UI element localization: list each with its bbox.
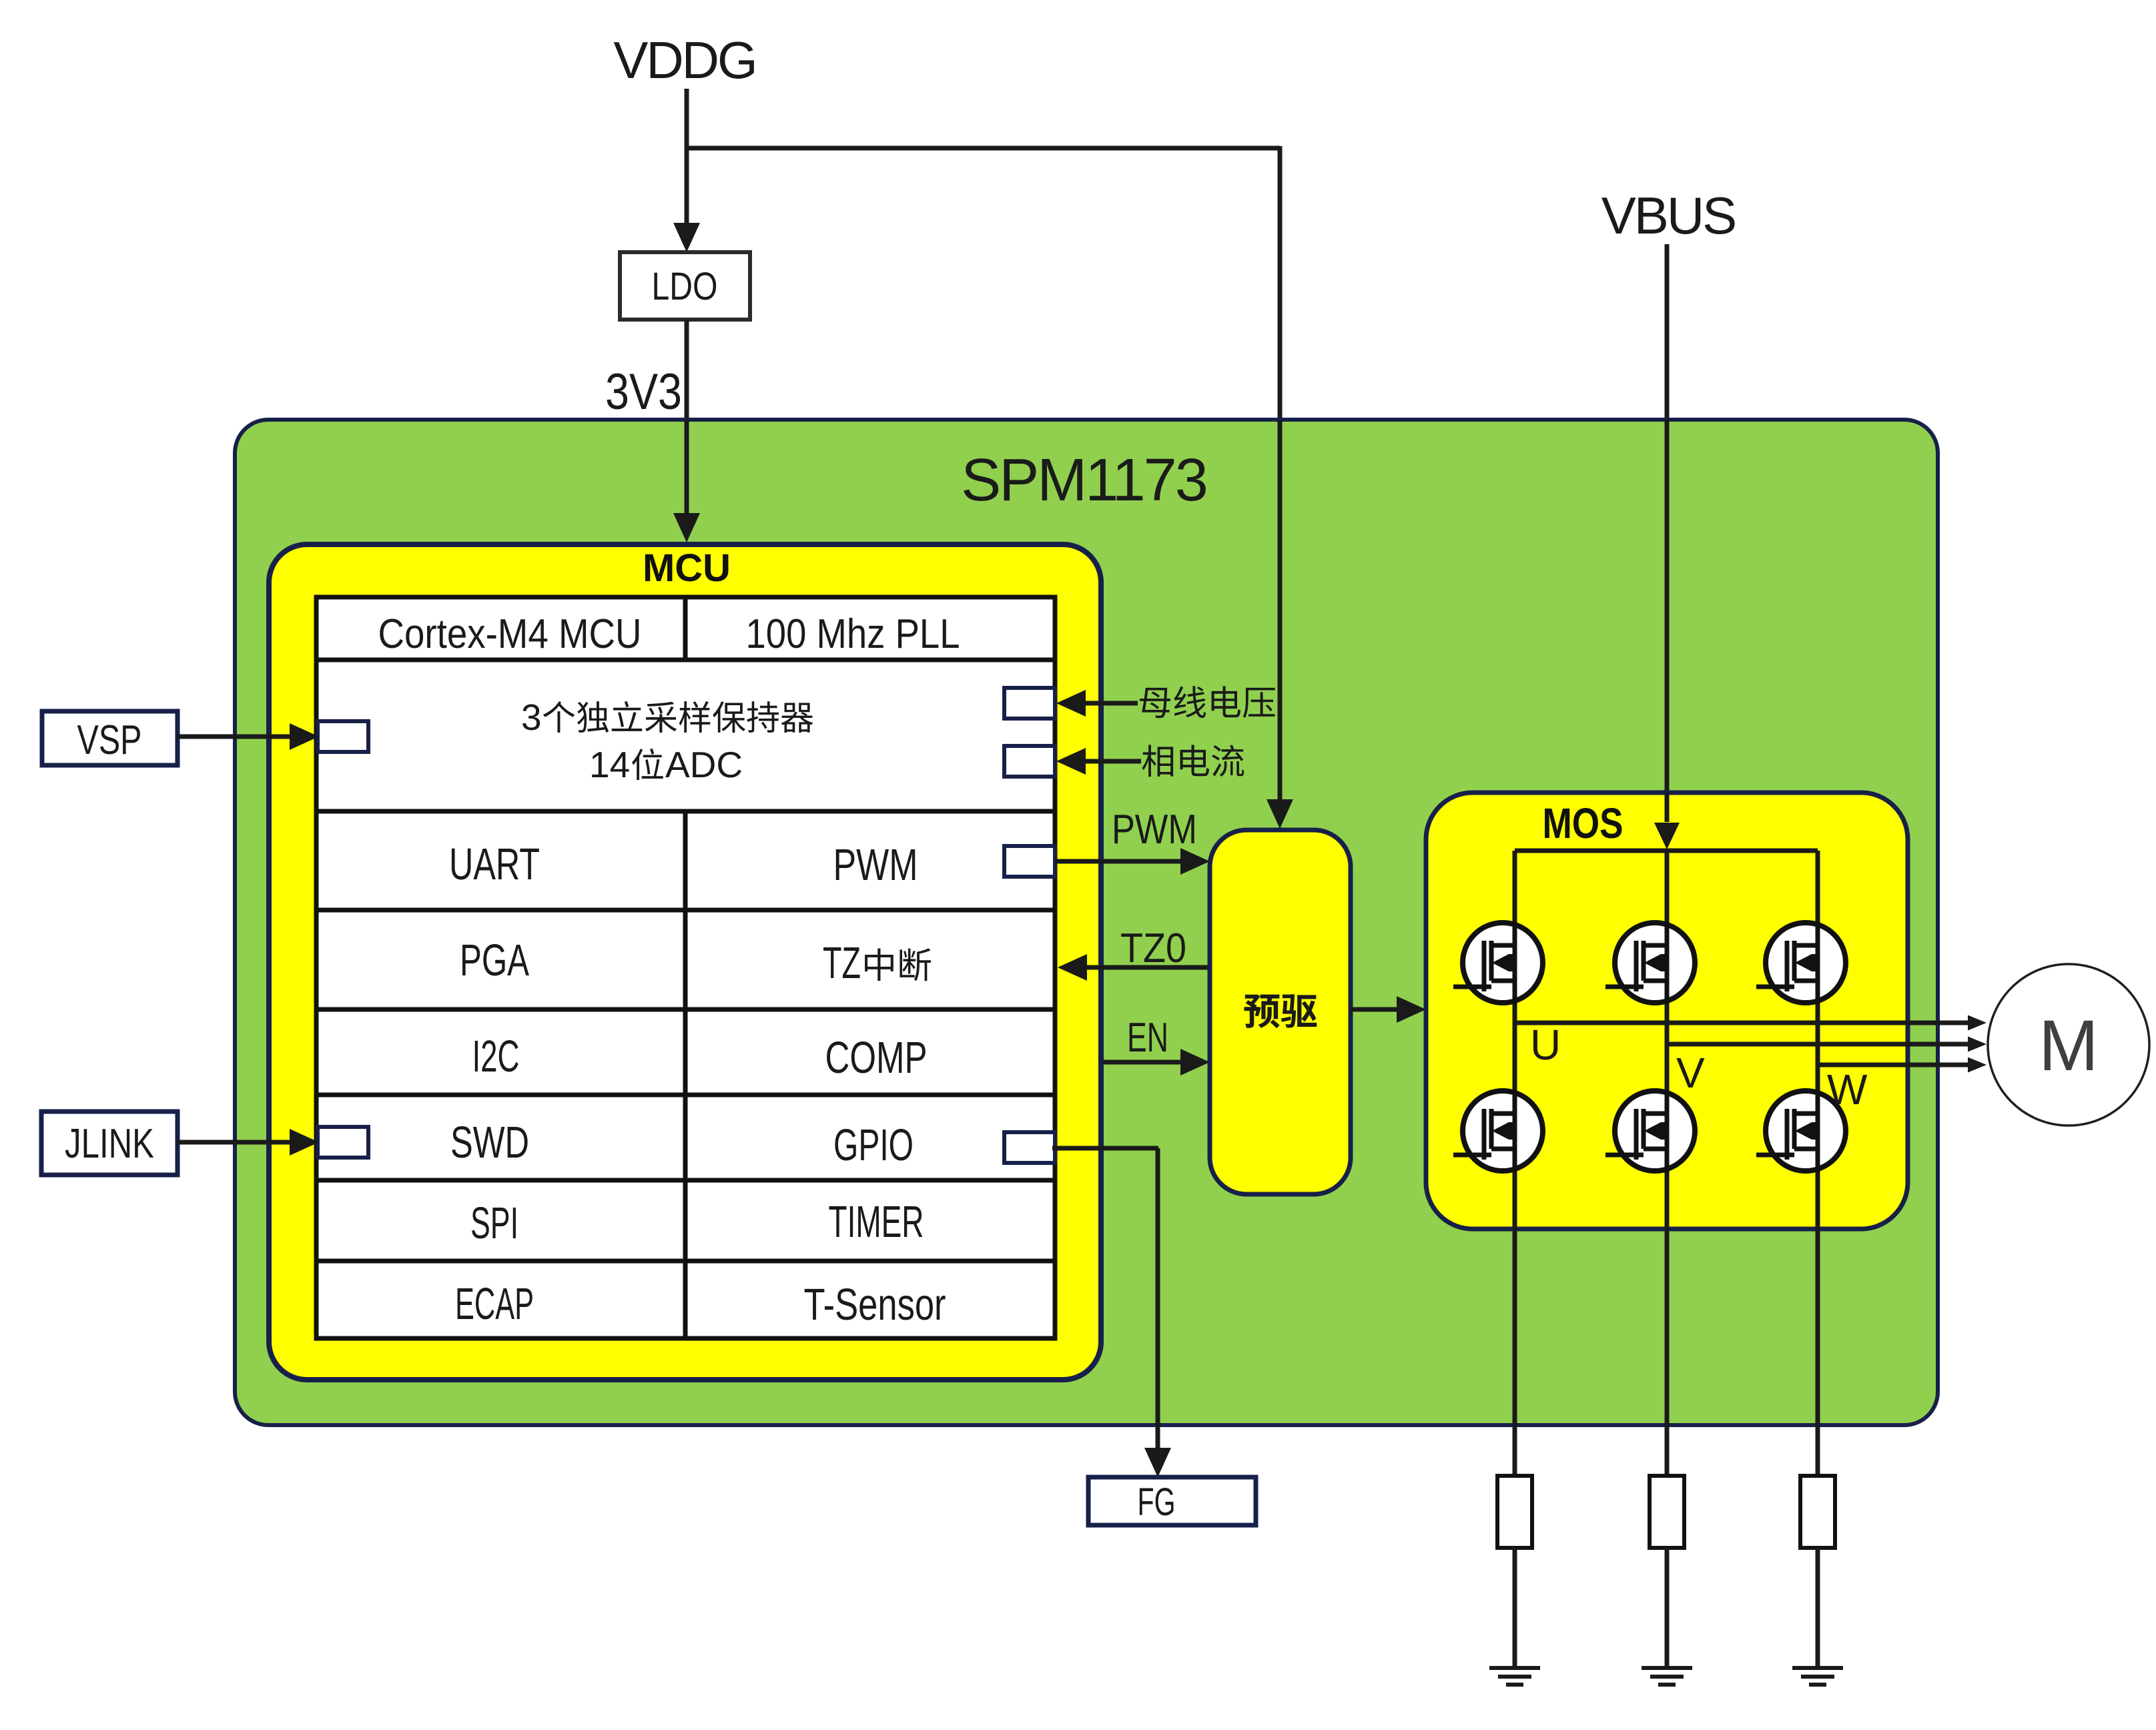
- wire GPIO to FG vertical: [1156, 1148, 1160, 1452]
- pin phase-current port: [1004, 746, 1055, 777]
- svg-text:SPM1173: SPM1173: [961, 447, 1206, 514]
- block MCU: [269, 544, 1101, 1380]
- wire 3V3 inside chip: [685, 420, 689, 517]
- transistor Q5: [1605, 1090, 1695, 1172]
- transistor Q6: [1756, 1090, 1846, 1172]
- svg-text:3V3: 3V3: [605, 364, 682, 420]
- wire VSP to MCU: [177, 735, 294, 739]
- svg-text:ECAP: ECAP: [455, 1279, 534, 1329]
- wire U phase output: [1515, 1021, 1968, 1025]
- wire JLINK to SWD: [177, 1140, 294, 1145]
- pin GPIO port: [1004, 1132, 1055, 1163]
- svg-text:EN: EN: [1127, 1015, 1168, 1061]
- svg-text:PGA: PGA: [460, 935, 529, 985]
- wire resistor to ground: [1665, 1548, 1670, 1668]
- svg-text:V: V: [1676, 1049, 1705, 1097]
- svg-text:TIMER: TIMER: [829, 1197, 924, 1247]
- svg-text:LDO: LDO: [652, 265, 718, 308]
- motor M: [1988, 964, 2149, 1126]
- wire VDDG vertical to LDO: [685, 89, 689, 227]
- table row line: [316, 1007, 1055, 1012]
- wire phase-current arrow: [1084, 759, 1141, 764]
- svg-text:JLINK: JLINK: [65, 1121, 154, 1167]
- svg-text:MOS: MOS: [1543, 799, 1624, 847]
- svg-text:3: 3: [521, 697, 542, 738]
- transistor Q3: [1756, 921, 1846, 1004]
- wire predriver to MOS: [1351, 1007, 1401, 1012]
- svg-text:TZ: TZ: [823, 938, 861, 988]
- wire W phase vertical: [1816, 851, 1820, 1476]
- ground: [1489, 1666, 1540, 1670]
- svg-text:PWM: PWM: [1112, 807, 1197, 853]
- wire U phase vertical: [1513, 851, 1517, 1476]
- svg-text:SWD: SWD: [450, 1118, 529, 1168]
- svg-text:M: M: [2039, 1005, 2099, 1086]
- table row line: [316, 908, 1055, 913]
- MCU peripheral table: [316, 597, 1055, 1338]
- block predriver label: [1244, 994, 1279, 1028]
- pin VSP port: [318, 721, 368, 752]
- svg-text:I2C: I2C: [472, 1031, 520, 1082]
- transistor Q2: [1605, 921, 1695, 1004]
- pin PWM port: [1004, 846, 1055, 877]
- svg-text:UART: UART: [449, 839, 540, 889]
- table row line: [316, 658, 1055, 663]
- table column divider lower rows: [683, 811, 688, 1338]
- resistor shunt at x=2724: [1800, 1476, 1835, 1548]
- svg-text:U: U: [1530, 1021, 1561, 1069]
- transistor Q4: [1453, 1090, 1543, 1172]
- wire VDDG branch arrow into predriver: [1278, 767, 1283, 802]
- svg-text:VSP: VSP: [77, 717, 142, 763]
- wire VBUS into MOS: [1665, 793, 1670, 822]
- wire resistor to ground: [1816, 1548, 1820, 1668]
- svg-text:Cortex-M4 MCU: Cortex-M4 MCU: [378, 611, 642, 657]
- block MOS: [1426, 793, 1908, 1229]
- wire W phase output: [1818, 1063, 1968, 1067]
- svg-text:GPIO: GPIO: [833, 1120, 914, 1170]
- wire resistor to ground: [1513, 1548, 1517, 1668]
- wire 3V3 LDO to MCU: [685, 320, 689, 517]
- table row line: [316, 1178, 1055, 1183]
- ground: [1642, 1666, 1692, 1670]
- wire bus-voltage arrow: [1084, 701, 1138, 706]
- table row line: [316, 1259, 1055, 1264]
- ground: [1792, 1666, 1843, 1670]
- table row line: [316, 809, 1055, 814]
- connector JLINK box: [41, 1112, 177, 1175]
- pin bus-voltage port: [1004, 688, 1055, 719]
- regulator LDO: [620, 252, 750, 320]
- resistor shunt at x=2270: [1497, 1476, 1532, 1548]
- svg-text:W: W: [1827, 1065, 1868, 1114]
- signal phase-current label: [1142, 745, 1174, 777]
- svg-text:ADC: ADC: [665, 744, 743, 785]
- wire TZ0 predriver to MCU: [1083, 965, 1210, 970]
- wire VDDG branch vertical down to predriver: [1278, 146, 1283, 801]
- table row line: [316, 1093, 1055, 1098]
- wire EN MCU to predriver: [1103, 1060, 1184, 1065]
- wire VDDG branch inside chip: [1278, 420, 1283, 801]
- wire V phase output: [1667, 1042, 1968, 1047]
- svg-text:TZ0: TZ0: [1120, 925, 1186, 971]
- wire VBUS vertical: [1665, 244, 1670, 819]
- svg-text:T-Sensor: T-Sensor: [804, 1280, 946, 1330]
- chip SPM1173 outline: [235, 420, 1938, 1425]
- table column divider top row: [683, 597, 688, 660]
- signal bus-voltage label: [1140, 688, 1170, 718]
- wire VBUS inside chip: [1665, 420, 1670, 819]
- wire GPIO to FG horizontal: [1052, 1146, 1158, 1151]
- svg-text:FG: FG: [1138, 1480, 1176, 1524]
- svg-text:VBUS: VBUS: [1601, 186, 1735, 245]
- svg-text:MCU: MCU: [643, 546, 731, 590]
- svg-text:14: 14: [589, 744, 630, 785]
- svg-text:100 Mhz PLL: 100 Mhz PLL: [746, 611, 960, 657]
- block predriver: [1210, 830, 1351, 1194]
- wire VDDG branch horizontal to predriver column: [687, 146, 1280, 151]
- connector VSP box: [42, 711, 177, 765]
- svg-text:VDDG: VDDG: [613, 31, 755, 89]
- resistor shunt at x=2498: [1650, 1476, 1684, 1548]
- svg-text:PWM: PWM: [833, 840, 918, 890]
- wire V phase vertical: [1665, 851, 1670, 1476]
- svg-text:COMP: COMP: [825, 1033, 928, 1083]
- wire MOS top bus: [1515, 849, 1818, 853]
- pin SWD port: [318, 1127, 368, 1158]
- connector FG box: [1088, 1477, 1256, 1525]
- wire PWM MCU to predriver: [1055, 859, 1184, 864]
- transistor Q1: [1453, 921, 1543, 1004]
- svg-text:SPI: SPI: [470, 1198, 518, 1248]
